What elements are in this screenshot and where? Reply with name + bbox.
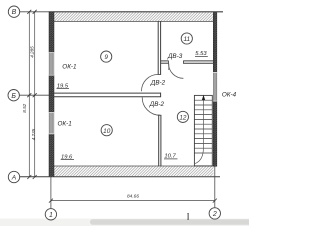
stair treads [194, 100, 212, 153]
svg-text:11: 11 [183, 36, 190, 43]
axis circle 2 [209, 208, 220, 219]
interior wall H (rooms 9/10 divider) [54, 93, 161, 98]
svg-text:ДВ-2: ДВ-2 [150, 80, 166, 87]
door DV-2 upper swing arc [141, 74, 158, 91]
stair walking line [195, 98, 204, 164]
svg-text:ОК-1: ОК-1 [62, 63, 76, 70]
left dimension chain line outer [28, 12, 30, 177]
svg-text:В: В [12, 9, 17, 16]
svg-text:ДВ-2: ДВ-2 [149, 101, 165, 108]
axis line B (top, horizontal) [20, 11, 49, 13]
stair walking line arrow [202, 95, 205, 100]
dimension ticks left chains [27, 10, 36, 179]
axis circle A (bottom) [8, 171, 19, 182]
svg-text:2: 2 [212, 211, 217, 218]
svg-text:Б: Б [11, 93, 16, 100]
building top outline line [49, 11, 223, 13]
svg-text:9: 9 [104, 54, 108, 61]
svg-text:12: 12 [179, 115, 187, 122]
window OK-4 in right wall [213, 72, 217, 101]
bottom dimension ticks [49, 199, 217, 203]
axis circle B (top) [8, 6, 19, 17]
window OK-1 lower in left wall [49, 112, 55, 134]
area label 19.5 room 9 [57, 83, 70, 89]
svg-text:ОК-1: ОК-1 [58, 120, 72, 127]
door DV-2 lower swing arc [142, 97, 160, 115]
top wall hatched band [54, 12, 214, 21]
left exterior wall (dark) [49, 12, 54, 177]
room 11 bottom wall with door DV-3 opening [161, 61, 214, 64]
door DV-3 swing arc [169, 63, 184, 78]
interior wall V1 (room 11 left wall) [158, 21, 161, 74]
left dimension chain line inner [34, 12, 36, 177]
stairs outline [194, 95, 212, 165]
axis line B2 (middle horizontal) [20, 94, 55, 96]
right exterior wall (dark) [213, 12, 217, 167]
axis circle 1 [45, 209, 56, 220]
svg-text:А: А [11, 175, 17, 182]
svg-text:ДВ-3: ДВ-3 [167, 53, 183, 60]
axis circle B2 (middle) [8, 90, 19, 101]
axis 1 extension line [50, 177, 52, 208]
text cursor I-beam [187, 214, 189, 220]
room circle 10 [101, 125, 112, 136]
svg-text:84.66: 84.66 [127, 194, 139, 200]
interior wall W3 (below lower door) [158, 115, 161, 166]
room circle 12 [177, 111, 188, 122]
area label 19.6 room 10 [61, 154, 74, 160]
room circle 11 [181, 33, 192, 44]
bottom wall hatched band [54, 166, 214, 176]
svg-text:8.52: 8.52 [22, 103, 27, 112]
svg-text:10: 10 [103, 128, 111, 135]
bottom UI scrollbar track [0, 219, 249, 226]
svg-text:4.235: 4.235 [31, 128, 36, 140]
bottom UI scrollbar thumb [90, 219, 252, 224]
svg-text:ОК-4: ОК-4 [222, 91, 237, 98]
axis line A + building bottom outline [20, 176, 220, 178]
area label 10.7 room 12 [164, 154, 178, 160]
room circle 9 [101, 51, 112, 62]
window OK-1 upper in left wall [49, 52, 55, 75]
bottom dimension line [51, 200, 215, 202]
door DV-3 leaf stub [168, 64, 170, 70]
svg-text:4.285: 4.285 [30, 46, 35, 58]
svg-text:1: 1 [49, 212, 53, 219]
axis 2 extension line [214, 167, 216, 208]
area label 5.53 room 11 [195, 51, 208, 57]
